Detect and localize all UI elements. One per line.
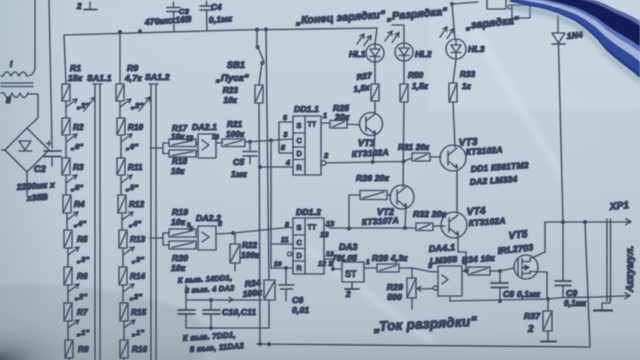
DA4 bottom to rail xyxy=(449,296,451,301)
resistor R50 xyxy=(400,84,408,102)
resistor R37 xyxy=(543,311,552,331)
pin stubs DD1.2 xyxy=(271,244,293,268)
svg-text:R3: R3 xyxy=(73,163,84,172)
svg-text:R9: R9 xyxy=(127,63,138,73)
svg-text:LM358: LM358 xyxy=(429,254,457,266)
svg-text:R2: R2 xyxy=(73,123,84,132)
svg-text:4,7к: 4,7к xyxy=(124,73,142,83)
svg-text:20к: 20к xyxy=(334,112,350,122)
svg-text:0,1мк: 0,1мк xyxy=(208,13,233,25)
svg-text:Аккумул.: Аккумул. xyxy=(625,245,636,293)
svg-text:R: R xyxy=(297,163,302,172)
wire HL2 top xyxy=(392,25,404,43)
contact box top1 xyxy=(487,0,506,9)
resistor R24 xyxy=(264,280,275,300)
transformer T1 winding I xyxy=(1,69,35,76)
node tap xyxy=(66,175,77,183)
svg-text:R11: R11 xyxy=(128,163,143,172)
node tap xyxy=(120,99,131,107)
svg-text:R29: R29 xyxy=(387,282,403,292)
svg-text:VT1: VT1 xyxy=(358,138,375,148)
svg-text:R22: R22 xyxy=(242,241,258,250)
resistor R8 xyxy=(65,340,73,358)
svg-text:R14: R14 xyxy=(130,272,146,281)
svg-text:D: D xyxy=(297,149,302,158)
resistor R22 xyxy=(230,244,240,263)
resistor R33 xyxy=(449,83,457,102)
wire DA2.2 out to DD1.2 S xyxy=(216,228,293,235)
svg-text:„4“: „4“ xyxy=(128,219,141,228)
svg-text:TT: TT xyxy=(308,223,317,232)
capacitor C3 xyxy=(167,2,180,31)
svg-text:10к: 10к xyxy=(171,263,186,273)
svg-text:3: 3 xyxy=(428,261,433,270)
svg-text:HL3: HL3 xyxy=(468,44,485,54)
wire R21 to DD1.1 xyxy=(245,139,293,142)
transistor VT2 xyxy=(390,185,414,209)
svg-text:C: C xyxy=(297,238,302,247)
svg-text:„1“: „1“ xyxy=(76,328,89,337)
svg-text:8: 8 xyxy=(218,221,222,228)
LED arrows xyxy=(357,34,364,44)
node tap xyxy=(121,134,132,142)
wire rail A to XP1 xyxy=(545,221,626,223)
svg-text:SA1.1: SA1.1 xyxy=(87,73,112,83)
svg-text:100к: 100к xyxy=(242,287,263,299)
wire top supply bus xyxy=(64,28,377,35)
svg-text:R20: R20 xyxy=(172,253,188,263)
wire HL3 to R33 xyxy=(453,59,456,83)
svg-text:„Пуск“: „Пуск“ xyxy=(215,73,249,84)
wire HL1 to R27 xyxy=(374,62,376,84)
wire R33 to VT3 xyxy=(453,102,455,147)
svg-text:R23: R23 xyxy=(223,86,239,95)
transistor VT1 xyxy=(360,113,383,136)
svg-text:С8 0,1мк: С8 0,1мк xyxy=(503,289,541,299)
svg-text:D: D xyxy=(297,251,302,260)
svg-text:13: 13 xyxy=(326,221,334,228)
wire mains input B xyxy=(49,0,52,148)
resistor R25 xyxy=(330,121,347,129)
resistor R18 xyxy=(169,150,196,157)
wire R50 through rail to VT2 collector xyxy=(403,102,404,187)
svg-text:SA1.2: SA1.2 xyxy=(145,72,170,82)
wire HL3 top / contact boxes xyxy=(452,2,478,4)
resistor R22 xyxy=(234,233,236,271)
svg-text:6: 6 xyxy=(283,115,287,122)
svg-text:КТ3107А: КТ3107А xyxy=(362,215,399,227)
wire vertical to DD1.2 pin 11 xyxy=(270,140,272,268)
svg-text:II: II xyxy=(6,96,11,105)
svg-text:КТ3102А: КТ3102А xyxy=(352,147,389,159)
node tap xyxy=(122,212,133,220)
resistor R21 wire xyxy=(216,142,222,144)
svg-text:9: 9 xyxy=(189,226,193,233)
DA3 pin 2 ground xyxy=(351,282,353,288)
svg-text:R19: R19 xyxy=(172,207,188,217)
svg-text:10к: 10к xyxy=(171,167,185,176)
wire SB1 column down xyxy=(259,103,260,344)
R29 wiper arrow xyxy=(417,288,424,291)
svg-text:2: 2 xyxy=(527,324,534,335)
VT5 drain wire xyxy=(530,222,545,259)
svg-text:C10,C11: C10,C11 xyxy=(222,307,256,317)
svg-text:100к: 100к xyxy=(226,130,245,139)
svg-text:„2“: „2“ xyxy=(129,292,142,301)
wire mains input A xyxy=(34,0,36,69)
wire bus corner to HL1 xyxy=(375,28,377,44)
capacitor C5 xyxy=(243,142,257,164)
svg-text:14: 14 xyxy=(212,135,220,141)
pen shadow xyxy=(510,2,640,86)
diode VD1 1N4... xyxy=(552,33,565,43)
DA4 output to R34 xyxy=(462,270,468,272)
LED HL2 xyxy=(395,43,413,61)
svg-text:R10: R10 xyxy=(128,123,144,132)
svg-text:TT: TT xyxy=(308,120,317,129)
wire R28 to R29/DA4 xyxy=(399,268,438,278)
svg-text:R16: R16 xyxy=(132,345,148,354)
resistor R14 xyxy=(119,267,127,285)
svg-text:10к: 10к xyxy=(171,217,186,227)
svg-text:R6: R6 xyxy=(77,272,88,281)
capacitor C9 xyxy=(555,222,571,298)
contact circle xyxy=(508,5,512,9)
node tap xyxy=(68,247,79,255)
svg-text:R28 4,3к: R28 4,3к xyxy=(372,253,408,263)
svg-text:R12: R12 xyxy=(129,200,145,209)
resistor R7 xyxy=(64,303,72,321)
svg-text:0,01: 0,01 xyxy=(292,305,309,315)
svg-text:„5“: „5“ xyxy=(125,183,138,192)
resistor R12 xyxy=(118,195,126,213)
svg-text:S: S xyxy=(297,121,302,130)
resistor R34 xyxy=(468,267,490,275)
svg-text:„4“: „4“ xyxy=(73,219,86,228)
svg-text:R26 20к: R26 20к xyxy=(356,173,390,183)
node tap xyxy=(67,212,78,220)
wire VT4 emitter xyxy=(458,236,466,271)
svg-text:1: 1 xyxy=(366,259,370,266)
wire DD1.2 to DA3 xyxy=(333,268,342,270)
svg-text:100к: 100к xyxy=(241,251,260,260)
capacitor C4 xyxy=(200,1,213,30)
LED HL1 xyxy=(366,44,384,62)
svg-text:11: 11 xyxy=(281,237,289,244)
svg-text:ХР1: ХР1 xyxy=(608,200,630,213)
resistor R16 xyxy=(120,340,128,358)
svg-text:„6“: „6“ xyxy=(125,142,138,151)
svg-text:HL2: HL2 xyxy=(415,49,432,59)
svg-text:13: 13 xyxy=(320,230,329,239)
wire bus to R9 xyxy=(119,32,121,84)
resistor R32 xyxy=(416,223,433,231)
wire bridge output down xyxy=(26,172,28,195)
capacitor C2 xyxy=(44,141,61,166)
svg-text:„2“: „2“ xyxy=(76,101,89,110)
svg-text:VT5: VT5 xyxy=(508,229,528,242)
wire R27 to VT1 xyxy=(374,101,376,113)
resistor R3 xyxy=(62,158,70,175)
svg-text:0,1мк: 0,1мк xyxy=(564,299,587,308)
ground at XP1 xyxy=(602,297,610,309)
wire rail pin13 xyxy=(324,224,416,228)
svg-text:10к: 10к xyxy=(223,96,237,105)
wire Q-bar rail xyxy=(326,158,412,163)
svg-text:R37: R37 xyxy=(524,311,541,321)
svg-text:DA2.1: DA2.1 xyxy=(192,122,217,132)
svg-text:R18: R18 xyxy=(172,157,188,166)
wire VT2 emitter down xyxy=(405,207,406,228)
node tap xyxy=(68,284,79,292)
LED arrows xyxy=(385,31,392,41)
resistor R37 xyxy=(547,299,549,311)
pin stubs DD1.1 xyxy=(260,122,293,167)
transistor VT4 xyxy=(441,212,467,238)
resistor R9 xyxy=(116,84,124,101)
resistor R23 xyxy=(255,85,263,103)
svg-text:R21: R21 xyxy=(227,120,243,129)
svg-text:R1: R1 xyxy=(70,63,81,73)
svg-text:1: 1 xyxy=(323,113,327,120)
svg-text:R4: R4 xyxy=(74,200,85,209)
wire right vertical to bottom rail xyxy=(585,222,590,346)
svg-text:500: 500 xyxy=(387,292,402,302)
wire R17 R18 left xyxy=(150,143,169,154)
transistor VT3 xyxy=(440,145,466,171)
node tap xyxy=(123,284,134,292)
svg-text:R33: R33 xyxy=(460,70,476,79)
svg-text:„6“: „6“ xyxy=(70,142,83,151)
node tap xyxy=(123,247,134,255)
svg-text:„3“: „3“ xyxy=(131,255,144,264)
resistor R6 xyxy=(64,267,72,285)
svg-text:C2: C2 xyxy=(34,164,46,174)
resistor R4 xyxy=(63,195,71,213)
resistor R26 xyxy=(360,191,387,200)
svg-text:C6: C6 xyxy=(292,295,303,305)
svg-text:R15: R15 xyxy=(131,308,147,317)
LED arrows xyxy=(440,27,447,37)
svg-text:15к: 15к xyxy=(68,73,83,83)
svg-text:DA4.1: DA4.1 xyxy=(428,242,455,254)
node tap xyxy=(68,320,79,328)
VT5 source wire xyxy=(530,272,547,300)
resistor R2 xyxy=(62,118,70,135)
resistor R15 xyxy=(120,303,128,321)
svg-text:R7: R7 xyxy=(77,308,88,317)
svg-text:DA3: DA3 xyxy=(339,242,358,252)
resistor R1 xyxy=(62,84,70,101)
svg-text:„2“: „2“ xyxy=(74,292,87,301)
svg-text:C5: C5 xyxy=(233,157,244,167)
svg-text:R50: R50 xyxy=(408,71,424,80)
svg-text:HL1: HL1 xyxy=(349,49,366,59)
resistor R29 xyxy=(407,278,416,298)
svg-text:3: 3 xyxy=(284,132,288,139)
resistor R11 xyxy=(117,158,125,175)
wire rail B to XP1 minus xyxy=(450,296,622,301)
contact box top2 xyxy=(512,5,530,18)
svg-text:DD1.1: DD1.1 xyxy=(294,104,319,114)
bottom rail xyxy=(257,344,590,347)
wire VT1 emitter down xyxy=(373,134,375,162)
svg-text:ST: ST xyxy=(345,269,357,279)
resistor R19 xyxy=(169,229,196,237)
node tap xyxy=(66,134,77,142)
DA3 output to R28 xyxy=(364,267,377,269)
svg-text:„1“: „1“ xyxy=(131,328,144,337)
svg-text:4: 4 xyxy=(285,160,290,167)
connector XP1 bracket xyxy=(607,219,611,301)
svg-text:12 3: 12 3 xyxy=(318,261,332,268)
svg-text:R8: R8 xyxy=(78,345,89,354)
wire HL2 to R50 xyxy=(403,61,405,84)
svg-text:х35В: х35В xyxy=(25,192,48,204)
svg-text:1мк: 1мк xyxy=(231,169,247,179)
svg-text:R: R xyxy=(297,264,302,273)
svg-text:5: 5 xyxy=(281,145,285,152)
resistor R17 xyxy=(169,139,196,147)
svg-text:R32 20к: R32 20к xyxy=(413,209,447,219)
node tap xyxy=(66,99,77,107)
wire bus to R1 xyxy=(64,35,66,84)
resistor R28 xyxy=(377,264,399,272)
wire second vertical xyxy=(266,30,269,280)
node tap xyxy=(124,320,135,328)
svg-text:„3“: „3“ xyxy=(76,255,89,264)
pin 12 to C6 xyxy=(324,259,333,269)
resistor R21 xyxy=(222,139,245,147)
node tap xyxy=(121,175,132,183)
svg-text:DD1.2: DD1.2 xyxy=(296,207,321,217)
pen (blue ballpoint across corner) xyxy=(510,0,640,78)
svg-text:C9: C9 xyxy=(566,288,577,298)
svg-text:„5“: „5“ xyxy=(70,183,83,192)
wire winding II to bridge xyxy=(27,94,38,128)
wire VT3 emitter to VT4 xyxy=(456,170,458,213)
resistor R10 xyxy=(117,118,125,135)
svg-text:R5: R5 xyxy=(77,235,88,244)
gate wire from R34 xyxy=(490,268,514,271)
svg-text:R13: R13 xyxy=(130,235,146,244)
svg-text:10: 10 xyxy=(274,261,282,268)
svg-text:1к: 1к xyxy=(462,82,472,91)
resistor R27 xyxy=(371,84,379,101)
wire R19 R20 left xyxy=(150,233,169,245)
svg-text:2: 2 xyxy=(323,151,329,160)
resistor R26 wires xyxy=(349,195,391,229)
svg-text:SB1: SB1 xyxy=(227,60,245,70)
capacitor C8 xyxy=(491,271,508,301)
bottom-left corner shadow xyxy=(0,314,96,360)
svg-text:2: 2 xyxy=(345,290,351,299)
diode bridge rectifier xyxy=(5,128,49,172)
resistor R31 xyxy=(412,153,430,161)
svg-text:13: 13 xyxy=(186,136,194,142)
pin 1 DD1.1 to R25 xyxy=(321,122,330,124)
resistor R13 xyxy=(119,230,127,248)
svg-text:10к: 10к xyxy=(171,133,185,142)
transformer T1 winding II xyxy=(1,93,28,98)
svg-text:C: C xyxy=(297,136,302,145)
capacitor C6 xyxy=(279,268,294,301)
svg-text:S: S xyxy=(297,223,302,232)
resistor R20 xyxy=(169,241,196,249)
resistor R5 xyxy=(64,230,72,248)
transformer core xyxy=(1,83,33,87)
svg-text:C4: C4 xyxy=(211,3,222,12)
LED HL3 xyxy=(446,39,466,59)
svg-text:2: 2 xyxy=(76,2,82,11)
capacitors C10 C11 xyxy=(186,285,269,328)
pin 2 DD1.1 inverted output xyxy=(321,161,326,166)
svg-text:1,5к: 1,5к xyxy=(412,82,429,91)
